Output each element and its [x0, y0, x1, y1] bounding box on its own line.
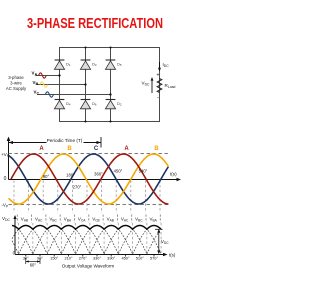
svg-text:570°: 570° — [150, 256, 158, 261]
svg-text:D3: D3 — [92, 63, 97, 68]
svg-text:VBA: VBA — [150, 217, 158, 223]
svg-text:D1: D1 — [66, 63, 71, 68]
svg-text:360°: 360° — [94, 172, 103, 177]
svg-text:90°: 90° — [43, 174, 50, 179]
svg-text:A: A — [124, 146, 129, 152]
svg-text:RLoad: RLoad — [165, 83, 176, 89]
svg-text:D5: D5 — [117, 63, 122, 68]
svg-text:D6: D6 — [92, 102, 97, 107]
svg-text:0: 0 — [13, 251, 16, 257]
svg-text:C: C — [94, 146, 99, 152]
svg-text:VAC: VAC — [121, 217, 129, 223]
svg-text:VAC: VAC — [35, 217, 43, 223]
svg-text:-: - — [157, 96, 159, 102]
svg-text:VDC: VDC — [142, 81, 151, 87]
svg-text:3-phase: 3-phase — [8, 75, 24, 80]
svg-text:3-wire: 3-wire — [10, 81, 22, 86]
svg-text:3-PHASE RECTIFICATION: 3-PHASE RECTIFICATION — [27, 15, 163, 32]
svg-text:-VP: -VP — [1, 203, 9, 209]
svg-text:Periodic Time (T): Periodic Time (T) — [47, 138, 83, 143]
svg-text:390°: 390° — [107, 256, 115, 261]
svg-text:B: B — [67, 146, 72, 152]
svg-text:B: B — [154, 146, 159, 152]
svg-text:A: A — [39, 146, 44, 152]
svg-text:270°: 270° — [79, 256, 87, 261]
svg-text:VDC: VDC — [2, 216, 10, 222]
svg-text:VAB: VAB — [107, 217, 114, 223]
svg-text:510°: 510° — [136, 256, 144, 261]
svg-text:VBC: VBC — [135, 217, 143, 223]
svg-text:0: 0 — [4, 176, 7, 182]
svg-text:+VP: +VP — [1, 152, 10, 158]
svg-text:210°: 210° — [64, 256, 72, 261]
svg-text:VCB: VCB — [92, 217, 99, 223]
svg-text:D4: D4 — [66, 102, 71, 107]
svg-text:IDC: IDC — [163, 62, 170, 68]
svg-text:450°: 450° — [114, 169, 123, 174]
svg-text:D2: D2 — [117, 102, 122, 107]
svg-text:VBA: VBA — [64, 217, 72, 223]
svg-text:270°: 270° — [73, 185, 82, 190]
svg-text:t(s): t(s) — [170, 172, 177, 177]
svg-text:t(s): t(s) — [169, 253, 176, 258]
svg-text:150°: 150° — [50, 256, 58, 261]
svg-text:AC Supply: AC Supply — [6, 86, 27, 91]
svg-text:450°: 450° — [121, 256, 129, 261]
svg-text:+: + — [157, 73, 160, 79]
svg-text:180°: 180° — [66, 173, 75, 178]
svg-text:60°: 60° — [30, 263, 37, 268]
svg-text:540°: 540° — [139, 169, 148, 174]
svg-text:VAB: VAB — [21, 217, 28, 223]
svg-text:Output Voltage Waveform: Output Voltage Waveform — [62, 264, 115, 269]
svg-text:VBC: VBC — [49, 217, 57, 223]
svg-text:330°: 330° — [93, 256, 101, 261]
svg-text:VCA: VCA — [78, 217, 86, 223]
svg-text:VDC: VDC — [161, 239, 169, 245]
